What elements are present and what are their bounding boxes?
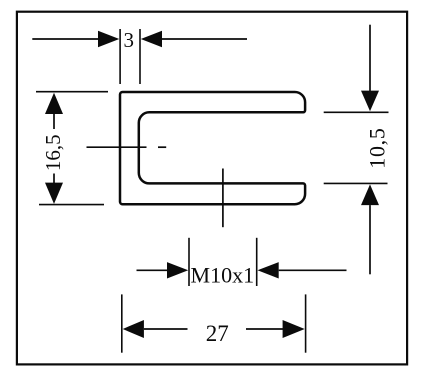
dimension 3: extension lines xyxy=(120,29,140,84)
dimension 16,5: extension lines xyxy=(36,92,108,205)
dimension 16,5: top arrow xyxy=(45,93,63,129)
dimension 16,5: bottom arrow xyxy=(45,174,63,204)
dimension 27: right arrow xyxy=(246,320,305,338)
dimension M10x1: left arrow xyxy=(137,262,189,278)
dimension 10,5: upper arrow xyxy=(361,25,379,112)
part outline (U-bracket section) xyxy=(120,92,305,204)
dimension 27: extension lines xyxy=(122,294,306,352)
svg-text:27: 27 xyxy=(206,321,229,346)
dimension 10,5: lower arrow xyxy=(361,184,379,274)
dimension 3: right arrow xyxy=(141,31,247,47)
dimension M10x1: extension lines xyxy=(189,238,257,286)
dimension 27: left arrow xyxy=(123,320,188,338)
svg-text:10,5: 10,5 xyxy=(364,127,389,168)
vertical centerline (thread axis) xyxy=(222,169,224,228)
svg-text:M10x1: M10x1 xyxy=(191,262,255,287)
dimension 10,5: extension lines xyxy=(324,112,389,183)
horizontal centerline xyxy=(87,146,167,148)
svg-text:16,5: 16,5 xyxy=(41,134,65,171)
dimension M10x1: right arrow xyxy=(258,262,347,278)
svg-text:3: 3 xyxy=(124,28,135,52)
dimension 3: left arrow xyxy=(32,31,119,47)
